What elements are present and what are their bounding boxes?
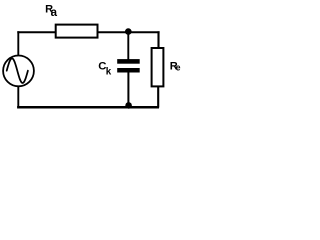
svg-text:k: k	[106, 67, 112, 78]
svg-text:e: e	[176, 63, 181, 73]
svg-text:a: a	[51, 7, 58, 19]
